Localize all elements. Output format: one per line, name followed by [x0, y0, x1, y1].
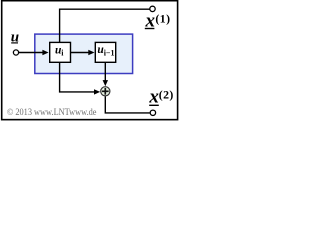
svg-text:i−1: i−1	[104, 49, 115, 58]
register block (blue frame)	[35, 34, 133, 73]
svg-text:(1): (1)	[155, 11, 170, 25]
label x(1)	[145, 10, 171, 31]
svg-text:© 2013 www.LNTwww.de: © 2013 www.LNTwww.de	[7, 107, 97, 118]
wire input to u_i	[19, 50, 49, 55]
adder	[101, 87, 110, 96]
copyright text	[7, 107, 97, 118]
wire u_i up	[60, 9, 150, 42]
wire adder to output x(2)	[105, 96, 150, 113]
svg-text:(2): (2)	[159, 88, 174, 102]
wire u_i down to adder	[60, 63, 101, 95]
wire u_i-1 down to adder	[103, 63, 108, 87]
node x(2) (output terminal)	[150, 110, 155, 115]
label u	[11, 30, 19, 46]
node u (input terminal)	[13, 50, 18, 55]
label x(2)	[148, 87, 173, 108]
block u_i	[50, 42, 71, 62]
wire u_i to u_i-1	[70, 50, 94, 55]
node x(1) (output terminal)	[150, 6, 155, 11]
block u_i-1	[95, 42, 115, 62]
